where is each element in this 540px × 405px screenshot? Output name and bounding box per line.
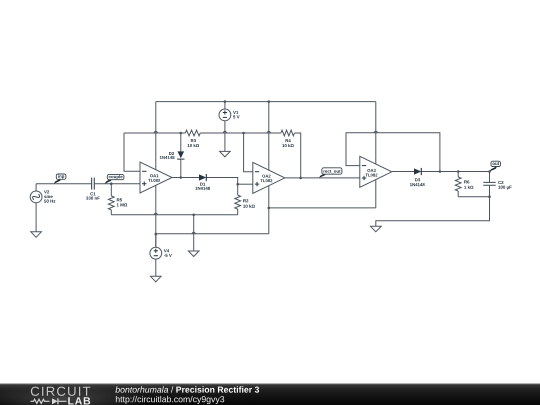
CircuitLab logo: CIRCUIT (31, 387, 90, 396)
wire -5V extension to OA3 V- (269, 207, 376, 209)
wire V1 top stem (224, 102, 226, 110)
wire OA2 - input branch (244, 133, 253, 172)
wire C2 top lead (489, 172, 491, 183)
op-amp OA3 (TL082) (360, 156, 392, 187)
resistor R6 (455, 177, 461, 191)
diode D1 (199, 174, 206, 180)
resistor R3 (185, 130, 200, 136)
op-amp OA2 (TL082) (253, 162, 285, 193)
junction D1 cathode / R2 / OA2 + (236, 183, 239, 186)
footer text: author / title (115, 386, 168, 392)
label OA2 (262, 175, 270, 178)
junction ground drop / ground rail (192, 214, 195, 217)
wire V4 top stem (155, 234, 157, 248)
footer text: url (116, 396, 224, 404)
label OA3 (367, 169, 375, 172)
junction OA2 V+ / +5V rail (268, 100, 271, 103)
label OA1 (150, 174, 158, 177)
wire R2 vertical (237, 184, 239, 195)
wire hop rail2/R4 over OA2 power (267, 131, 270, 133)
wire D2 branch vertical (180, 133, 182, 151)
wire V4 bottom stem (155, 259, 157, 276)
junction OA2 - input tap (242, 132, 245, 135)
net flag inp (54, 178, 61, 183)
label C1 value (90, 192, 95, 195)
wire R5 branch (110, 184, 112, 196)
ground (below V1) (220, 151, 231, 157)
junction OA2 V- / -5V extension (268, 207, 271, 210)
ground (below V4) (151, 276, 162, 282)
junction couple node (C1/R5/OA1+) (110, 182, 113, 185)
net flag couple (105, 178, 112, 183)
wire ground rail (R5 bottom to R2 bottom) (111, 214, 237, 216)
wire OA3 output to D3 (392, 171, 414, 173)
wire C2 bottom lead and return to ground (489, 186, 491, 197)
net flag rect_out (319, 173, 326, 178)
wire R6 vertical leads (457, 172, 459, 178)
op-amp OA1 (TL082) (140, 162, 172, 193)
CircuitLab logo: diode symbol (52, 398, 58, 404)
ground (below ground drop) (188, 251, 199, 257)
wire OA1 V- power stub (to -5V rail / V4) (155, 185, 157, 247)
wire V2 bottom stem (35, 203, 37, 232)
wire ground drop (193, 215, 195, 251)
junction OA3 feedback / D3 cathode (439, 170, 442, 173)
label R2 value (243, 199, 248, 202)
wire D1 cathode to OA2 + input (207, 178, 238, 185)
wire OA2 V+ power stub (268, 102, 270, 171)
wire R6 bottom to C2 bottom (458, 196, 489, 198)
label C2 value (498, 181, 503, 184)
wire hop rail2 over V1 ground stem (223, 131, 226, 133)
wire hop ground rail over OA1 power (154, 213, 157, 215)
wire OA3 - feedback loop (346, 133, 440, 172)
junction V4 / OA1 V- / -5V rail (155, 233, 158, 236)
wire OA1 - feedback (left vertical) (124, 133, 140, 171)
wire V1 bottom to ground (224, 121, 226, 152)
voltage source V2 (sine) (30, 191, 42, 203)
wire +5V rail (top) (156, 101, 376, 103)
junction OA1 output / D2 cathode (180, 176, 183, 179)
wire OA2 output to OA3 + input (net rect_out) (285, 177, 360, 179)
junction R6 top / output wire (457, 170, 460, 173)
footer bar (0, 384, 540, 405)
wire OA1 V+ power stub (155, 102, 157, 170)
wire hop -5V rail over ground drop (192, 232, 195, 234)
label R5 value (117, 198, 122, 201)
voltage source V1 (5 V DC) (219, 109, 231, 121)
wire R3 right to R4 left (OA2 - node rail) (200, 132, 281, 134)
CircuitLab logo: LAB (68, 397, 90, 404)
wire hop OA3 feedback over OA3 power (374, 131, 377, 133)
junction R6 bottom / C2 bottom (488, 195, 491, 198)
label V2 value (44, 190, 49, 193)
junction D2 anode / OA1 - rail (180, 132, 183, 135)
voltage source V4 (-5 V DC) (150, 247, 162, 259)
junction C2 top / out flag (488, 170, 491, 173)
wire C1 to OA1 + input (net couple) (94, 183, 140, 185)
diode D2 (178, 151, 185, 158)
wire OA1 output to D1 (172, 177, 199, 179)
ground (below V2) (31, 232, 42, 238)
label D3 value (415, 178, 420, 181)
wire OA3 V- power stub (375, 180, 377, 208)
label D1 value (200, 183, 205, 186)
wire R4 right lead and drop to output (295, 133, 301, 178)
resistor R4 (281, 130, 295, 136)
resistor R2 (235, 195, 241, 209)
label D2 value (169, 152, 174, 155)
resistor R5 (108, 196, 114, 210)
label R6 value (464, 180, 469, 183)
wire V2 to C1 (input, net inp) (36, 183, 92, 185)
label R3 value (191, 139, 196, 142)
diode D3 (414, 168, 421, 174)
capacitor C2 (483, 181, 495, 183)
wire OA1 - node rail segment (124, 132, 185, 134)
label V1 value (233, 111, 238, 114)
junction V1 top / +5V rail (224, 100, 227, 103)
net flag out (490, 166, 497, 171)
CircuitLab logo: resistor squiggle (31, 399, 50, 403)
label V4 value (164, 249, 169, 252)
junction R4 drop / OA2 output (299, 177, 302, 180)
ground (C2 return) (371, 226, 382, 232)
wire D3 cathode to C2 top (net out) (422, 171, 490, 173)
wire -5V rail (V4 to OA2 V-) (156, 233, 269, 235)
wire OA3 V+ power stub (375, 102, 377, 165)
label R4 value (286, 139, 291, 142)
wire OA2 V- power stub (268, 186, 270, 234)
wire hop rail2 over OA1 power (154, 131, 157, 133)
capacitor C1 (91, 178, 93, 190)
